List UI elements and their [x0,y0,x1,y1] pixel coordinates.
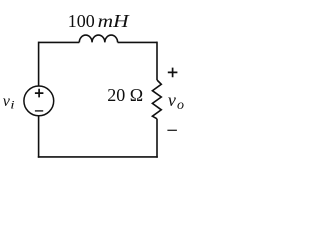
svg-text:20 Ω: 20 Ω [107,85,143,105]
svg-text:mH: mH [98,11,130,31]
wire: right side upper segment [156,42,158,80]
label: inductor value 100 mH [68,11,130,31]
resistor R1 zigzag (20 Ω) [152,80,161,119]
svg-text:100: 100 [68,11,95,31]
label: output voltage vo [168,90,184,113]
wire: left side upper segment [38,42,40,87]
wire: top side left segment [39,41,80,43]
svg-text:o: o [177,98,184,113]
wire: top side right segment [118,41,157,43]
label: input voltage vi [3,93,15,111]
wire: right side lower segment [156,119,158,158]
voltage source Vi circle [24,86,54,116]
voltage source + terminal mark [35,89,44,98]
label: − polarity mark of vo [167,129,177,131]
label: resistor value 20 Ω [107,85,143,105]
label: + polarity mark of vo [168,68,178,78]
svg-text:v: v [168,90,176,110]
voltage source − terminal mark [35,110,43,112]
svg-text:i: i [10,98,15,111]
wire: left side lower segment [38,116,40,158]
wire: bottom side [38,156,158,158]
inductor L1 coil (100 mH) [79,35,117,42]
